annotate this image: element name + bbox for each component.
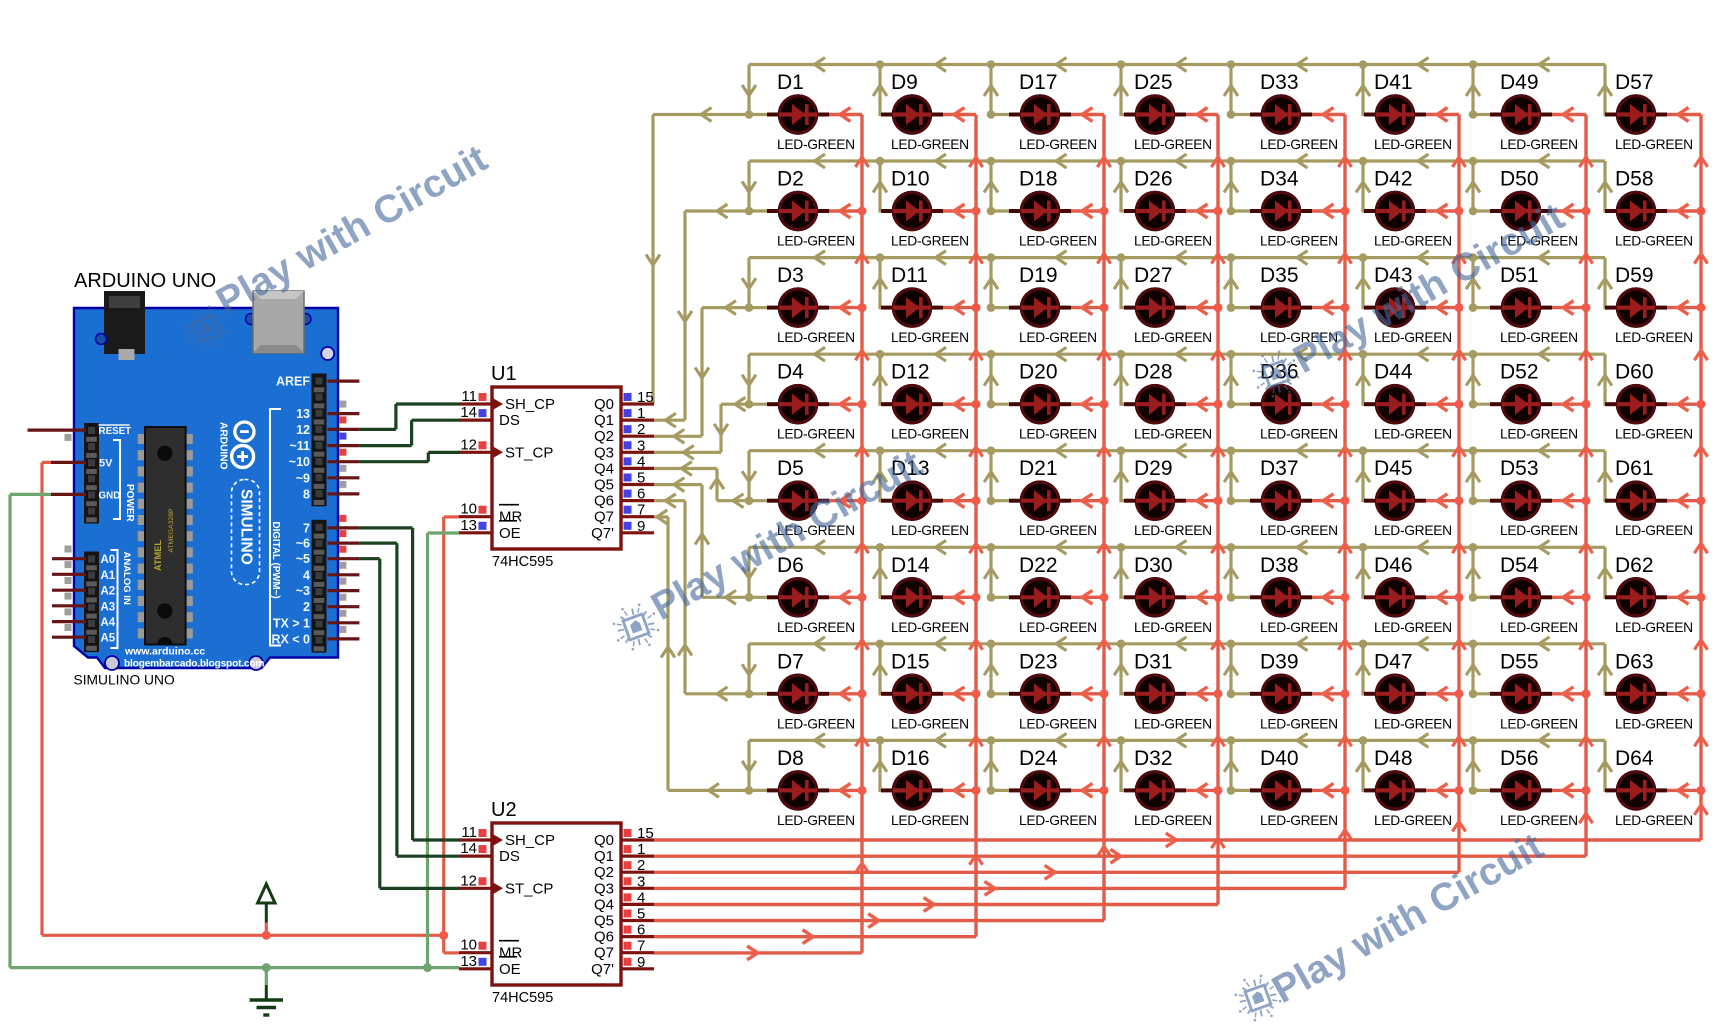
current arrows column 4 <box>924 108 1225 912</box>
svg-text:RX < 0: RX < 0 <box>271 632 310 646</box>
svg-text:LED-GREEN: LED-GREEN <box>1615 137 1693 152</box>
svg-text:Q5: Q5 <box>594 913 614 930</box>
svg-text:LED-GREEN: LED-GREEN <box>891 137 969 152</box>
svg-text:D41: D41 <box>1374 71 1413 94</box>
LED D4 <box>767 384 829 425</box>
svg-text:4: 4 <box>303 568 310 582</box>
svg-text:LED-GREEN: LED-GREEN <box>1374 716 1452 731</box>
LED D22 <box>1009 577 1071 618</box>
svg-text:U2: U2 <box>491 799 517 821</box>
svg-text:10: 10 <box>460 937 477 954</box>
svg-text:Q2: Q2 <box>594 864 614 881</box>
svg-text:13: 13 <box>296 407 310 421</box>
Arduino left pin stubs and labels <box>28 425 132 645</box>
svg-text:SIMULINO UNO: SIMULINO UNO <box>74 673 175 688</box>
LED D5 <box>767 480 829 521</box>
svg-text:11: 11 <box>461 388 477 405</box>
svg-text:LED-GREEN: LED-GREEN <box>1374 234 1452 249</box>
LED D14 <box>881 577 943 618</box>
watermark <box>177 137 495 358</box>
LED D43 <box>1364 287 1426 328</box>
wire: row 3 net (U1 Q2 to LED row, khaki) <box>654 258 1606 437</box>
svg-text:Q1: Q1 <box>594 848 614 865</box>
junction dots column 8 <box>1697 207 1706 795</box>
svg-text:D22: D22 <box>1019 554 1058 577</box>
LED D17 <box>1009 94 1071 135</box>
svg-text:www.arduino.cc: www.arduino.cc <box>124 646 205 658</box>
svg-text:D50: D50 <box>1500 168 1539 191</box>
LED D34 <box>1250 191 1312 232</box>
svg-text:7: 7 <box>637 502 645 519</box>
U1 pin numbers and state squares <box>460 388 653 535</box>
svg-text:5V: 5V <box>99 458 113 470</box>
LED D57 <box>1605 94 1667 135</box>
svg-text:4: 4 <box>637 453 645 470</box>
svg-text:14: 14 <box>460 404 477 421</box>
svg-text:LED-GREEN: LED-GREEN <box>1019 813 1097 828</box>
wire: column 5 net (U2 Q3 to LED column, red) <box>654 115 1345 889</box>
LED D47 <box>1364 674 1426 715</box>
svg-text:D35: D35 <box>1260 264 1299 287</box>
wire: Arduino D10 to U1 ST_CP (dark green) <box>359 452 459 461</box>
LED D51 <box>1490 287 1552 328</box>
svg-text:LED-GREEN: LED-GREEN <box>891 234 969 249</box>
header: digital 8-13/AREF pins <box>312 374 327 507</box>
svg-text:D54: D54 <box>1500 554 1539 577</box>
svg-text:D34: D34 <box>1260 168 1299 191</box>
svg-text:D40: D40 <box>1260 747 1299 770</box>
svg-text:15: 15 <box>637 825 654 842</box>
svg-text:Q3: Q3 <box>594 880 614 897</box>
LED D27 <box>1124 287 1186 328</box>
svg-text:LED-GREEN: LED-GREEN <box>1500 137 1578 152</box>
junction dots row 4 <box>745 350 1478 409</box>
svg-text:LED-GREEN: LED-GREEN <box>1019 234 1097 249</box>
svg-text:D56: D56 <box>1500 747 1539 770</box>
svg-text:D18: D18 <box>1019 168 1058 191</box>
header: digital 0-7 pins <box>312 520 327 653</box>
U1 pin name labels <box>499 396 614 542</box>
LED D63 <box>1605 674 1667 715</box>
svg-text:LED-GREEN: LED-GREEN <box>1019 330 1097 345</box>
svg-text:D30: D30 <box>1134 554 1173 577</box>
svg-text:D8: D8 <box>777 747 804 770</box>
LED D36 <box>1250 384 1312 425</box>
svg-text:D24: D24 <box>1019 747 1058 770</box>
LED D21 <box>1009 480 1071 521</box>
LED D40 <box>1250 770 1312 811</box>
LED D25 <box>1124 94 1186 135</box>
junction dots row 1 <box>745 60 1478 119</box>
svg-text:D2: D2 <box>777 168 804 191</box>
svg-text:D20: D20 <box>1019 361 1058 384</box>
wire: row 2 net (U1 Q1 to LED row, khaki) <box>654 161 1606 420</box>
junction dots column 3 <box>1100 207 1109 795</box>
svg-text:D53: D53 <box>1500 457 1539 480</box>
LED D39 <box>1250 674 1312 715</box>
svg-text:D60: D60 <box>1615 361 1654 384</box>
svg-text:D5: D5 <box>777 457 804 480</box>
wire: row 7 net (U1 Q6 to LED row, khaki) <box>654 501 1606 694</box>
svg-text:D23: D23 <box>1019 650 1058 673</box>
LED D58 <box>1605 191 1667 232</box>
LED D48 <box>1364 770 1426 811</box>
current arrows row 8 <box>657 510 1612 797</box>
svg-text:D42: D42 <box>1374 168 1413 191</box>
svg-text:~6: ~6 <box>296 537 310 551</box>
svg-text:D15: D15 <box>891 650 930 673</box>
svg-text:LED-GREEN: LED-GREEN <box>1134 330 1212 345</box>
svg-text:LED-GREEN: LED-GREEN <box>891 620 969 635</box>
current arrows column 2 <box>803 108 983 944</box>
svg-text:LED-GREEN: LED-GREEN <box>1615 620 1693 635</box>
LED D32 <box>1124 770 1186 811</box>
junction dots column 2 <box>972 207 981 795</box>
svg-text:AREF: AREF <box>276 375 310 389</box>
svg-text:LED-GREEN: LED-GREEN <box>777 330 855 345</box>
svg-text:D27: D27 <box>1134 264 1173 287</box>
wire: column 8 net (U2 Q0 to LED column, red) <box>654 115 1701 841</box>
watermark <box>1229 825 1551 1024</box>
svg-text:LED-GREEN: LED-GREEN <box>1500 716 1578 731</box>
svg-text:A2: A2 <box>101 586 116 598</box>
svg-text:LED-GREEN: LED-GREEN <box>1260 716 1338 731</box>
svg-text:D47: D47 <box>1374 650 1413 673</box>
svg-text:D46: D46 <box>1374 554 1413 577</box>
svg-text:LED-GREEN: LED-GREEN <box>1019 137 1097 152</box>
svg-text:D31: D31 <box>1134 650 1173 673</box>
svg-text:LED-GREEN: LED-GREEN <box>1500 813 1578 828</box>
current arrows row 5 <box>681 444 1612 508</box>
svg-text:D49: D49 <box>1500 71 1539 94</box>
svg-text:LED-GREEN: LED-GREEN <box>1374 137 1452 152</box>
current arrows row 1 <box>646 58 1612 265</box>
svg-text:D45: D45 <box>1374 457 1413 480</box>
svg-text:MR: MR <box>499 509 522 526</box>
svg-text:LED-GREEN: LED-GREEN <box>1500 620 1578 635</box>
U1 right pin stubs (Q0..Q7') <box>621 404 654 533</box>
svg-text:Q0: Q0 <box>594 832 614 849</box>
LED D12 <box>881 384 943 425</box>
svg-text:ATMEGA328P: ATMEGA328P <box>168 508 175 553</box>
svg-text:D55: D55 <box>1500 650 1539 673</box>
current arrows column 3 <box>868 108 1110 928</box>
svg-text:8: 8 <box>303 487 310 501</box>
svg-text:LED-GREEN: LED-GREEN <box>1374 620 1452 635</box>
svg-text:D3: D3 <box>777 264 804 287</box>
svg-text:LED-GREEN: LED-GREEN <box>1615 813 1693 828</box>
svg-text:13: 13 <box>460 517 477 534</box>
LED D33 <box>1250 94 1312 135</box>
svg-text:7: 7 <box>303 521 310 535</box>
svg-text:D26: D26 <box>1134 168 1173 191</box>
svg-text:3: 3 <box>637 873 645 890</box>
wire: column 4 net (U2 Q4 to LED column, red) <box>654 115 1218 905</box>
svg-text:LED-GREEN: LED-GREEN <box>777 234 855 249</box>
LED D49 <box>1490 94 1552 135</box>
wire: row 6 net (U1 Q5 to LED row, khaki) <box>654 485 1606 598</box>
svg-text:SH_CP: SH_CP <box>505 396 555 413</box>
svg-text:LED-GREEN: LED-GREEN <box>1134 716 1212 731</box>
svg-text:LED-GREEN: LED-GREEN <box>1615 234 1693 249</box>
LED D54 <box>1490 577 1552 618</box>
svg-text:Q7': Q7' <box>591 961 614 978</box>
LED D61 <box>1605 480 1667 521</box>
junction dots column 6 <box>1455 207 1464 795</box>
header: ANALOG pins <box>84 552 99 653</box>
svg-text:D63: D63 <box>1615 650 1654 673</box>
svg-text:Q5: Q5 <box>594 477 614 494</box>
svg-text:LED-GREEN: LED-GREEN <box>1134 234 1212 249</box>
svg-text:LED-GREEN: LED-GREEN <box>1615 330 1693 345</box>
svg-text:D17: D17 <box>1019 71 1058 94</box>
svg-text:14: 14 <box>460 840 477 857</box>
junction dots row 8 <box>745 736 1478 795</box>
IC U2 74HC595 body <box>492 823 621 985</box>
ground symbol <box>250 985 283 1015</box>
wire: Arduino D11 to U1 DS (dark green) <box>359 420 459 445</box>
wire: 5V power rail (red) <box>42 462 460 953</box>
wire: row 1 net (U1 Q0 to LED row, khaki) <box>653 65 1606 405</box>
junction dots column 7 <box>1582 207 1591 795</box>
svg-text:D29: D29 <box>1134 457 1173 480</box>
LED D3 <box>767 287 829 328</box>
LED D11 <box>881 287 943 328</box>
svg-text:LED-GREEN: LED-GREEN <box>777 427 855 442</box>
junction dots column 4 <box>1214 207 1223 795</box>
LED D45 <box>1364 480 1426 521</box>
svg-text:~5: ~5 <box>296 552 310 566</box>
current arrows column 6 <box>1045 108 1466 880</box>
svg-text:LED-GREEN: LED-GREEN <box>777 137 855 152</box>
svg-text:LED-GREEN: LED-GREEN <box>777 716 855 731</box>
current arrows row 3 <box>674 251 1612 444</box>
svg-text:15: 15 <box>637 389 654 406</box>
current arrows row 4 <box>683 347 1612 459</box>
svg-text:A1: A1 <box>101 570 116 582</box>
svg-text:7: 7 <box>637 938 645 955</box>
svg-text:2: 2 <box>303 600 310 614</box>
svg-text:6: 6 <box>637 486 645 503</box>
wire: Arduino D6 to U2 DS (dark green) <box>359 543 459 856</box>
wire: Arduino D7 to U2 SH_CP (dark green) <box>359 528 459 840</box>
LED D62 <box>1605 577 1667 618</box>
wire: row 4 net (U1 Q3 to LED row, khaki) <box>654 354 1606 452</box>
ATMEGA328P chip <box>138 427 193 645</box>
svg-text:3: 3 <box>637 437 645 454</box>
svg-text:LED-GREEN: LED-GREEN <box>1260 620 1338 635</box>
wire: column 6 net (U2 Q2 to LED column, red) <box>654 115 1459 873</box>
svg-text:D4: D4 <box>777 361 804 384</box>
current arrows row 6 <box>674 478 1612 605</box>
current arrows row 2 <box>665 154 1612 427</box>
svg-text:LED-GREEN: LED-GREEN <box>891 813 969 828</box>
LED D46 <box>1364 577 1426 618</box>
svg-text:D9: D9 <box>891 71 918 94</box>
svg-text:LED-GREEN: LED-GREEN <box>777 620 855 635</box>
svg-text:LED-GREEN: LED-GREEN <box>1260 137 1338 152</box>
svg-text:5: 5 <box>637 470 645 487</box>
svg-text:Q3: Q3 <box>594 444 614 461</box>
junction dots row 6 <box>745 543 1478 602</box>
svg-text:GND: GND <box>99 491 121 502</box>
svg-text:OE: OE <box>499 525 521 542</box>
LED D50 <box>1490 191 1552 232</box>
svg-text:D12: D12 <box>891 361 930 384</box>
junction dots row 5 <box>745 446 1478 505</box>
junction: gnd net dots <box>262 963 271 972</box>
svg-text:LED-GREEN: LED-GREEN <box>1500 427 1578 442</box>
LED D55 <box>1490 674 1552 715</box>
U2 pin numbers and state squares <box>460 824 653 971</box>
svg-text:POWER: POWER <box>124 484 135 523</box>
svg-text:LED-GREEN: LED-GREEN <box>1374 813 1452 828</box>
svg-text:~3: ~3 <box>296 584 310 598</box>
svg-text:ANALOG IN: ANALOG IN <box>121 552 132 605</box>
LED D2 <box>767 191 829 232</box>
svg-text:LED-GREEN: LED-GREEN <box>1019 427 1097 442</box>
svg-text:A0: A0 <box>101 554 116 566</box>
svg-text:6: 6 <box>637 922 645 939</box>
svg-text:2: 2 <box>637 421 645 438</box>
svg-text:TX > 1: TX > 1 <box>273 616 310 630</box>
svg-text:5: 5 <box>637 906 645 923</box>
svg-text:11: 11 <box>461 824 477 841</box>
LED D59 <box>1605 287 1667 328</box>
LED D7 <box>767 674 829 715</box>
svg-text:D61: D61 <box>1615 457 1654 480</box>
svg-text:13: 13 <box>460 953 477 970</box>
svg-text:D37: D37 <box>1260 457 1299 480</box>
svg-text:D52: D52 <box>1500 361 1539 384</box>
wire: column 3 net (U2 Q5 to LED column, red) <box>654 115 1104 921</box>
svg-text:~11: ~11 <box>289 439 310 453</box>
svg-text:LED-GREEN: LED-GREEN <box>891 427 969 442</box>
svg-text:Q7': Q7' <box>591 525 614 542</box>
LED D42 <box>1364 191 1426 232</box>
U1 left pin stubs (SH_CP, DS, ST_CP, MR, OE) <box>459 404 492 533</box>
svg-text:LED-GREEN: LED-GREEN <box>1615 716 1693 731</box>
LED D28 <box>1124 384 1186 425</box>
svg-text:D1: D1 <box>777 71 804 94</box>
svg-text:D28: D28 <box>1134 361 1173 384</box>
svg-text:~9: ~9 <box>296 471 310 485</box>
svg-text:Q6: Q6 <box>594 493 614 510</box>
LED D31 <box>1124 674 1186 715</box>
header: POWER pins <box>84 423 99 524</box>
svg-text:D48: D48 <box>1374 747 1413 770</box>
svg-text:LED-GREEN: LED-GREEN <box>1260 234 1338 249</box>
svg-text:9: 9 <box>637 518 645 535</box>
svg-text:12: 12 <box>296 423 310 437</box>
LED D37 <box>1250 480 1312 521</box>
svg-text:D7: D7 <box>777 650 804 673</box>
svg-text:D33: D33 <box>1260 71 1299 94</box>
wire: column 1 net (U2 Q7 to LED column, red) <box>654 115 862 953</box>
current arrows column 1 <box>747 108 869 960</box>
svg-text:LED-GREEN: LED-GREEN <box>1260 523 1338 538</box>
svg-text:A3: A3 <box>101 601 116 613</box>
LED D52 <box>1490 384 1552 425</box>
LED D19 <box>1009 287 1071 328</box>
U2 pin name labels <box>499 832 614 978</box>
LED D30 <box>1124 577 1186 618</box>
svg-text:MR: MR <box>499 945 522 962</box>
svg-text:LED-GREEN: LED-GREEN <box>1134 813 1212 828</box>
svg-text:DS: DS <box>499 848 520 865</box>
svg-text:D44: D44 <box>1374 361 1413 384</box>
LED D41 <box>1364 94 1426 135</box>
svg-text:D39: D39 <box>1260 650 1299 673</box>
LED D23 <box>1009 674 1071 715</box>
svg-text:LED-GREEN: LED-GREEN <box>1134 523 1212 538</box>
LED D10 <box>881 191 943 232</box>
svg-text:LED-GREEN: LED-GREEN <box>1019 716 1097 731</box>
LED D18 <box>1009 191 1071 232</box>
LED D6 <box>767 577 829 618</box>
svg-text:D11: D11 <box>891 264 928 287</box>
current arrows column 8 <box>1166 108 1708 847</box>
U2 left pin stubs (SH_CP, DS, ST_CP, MR, OE) <box>459 840 492 969</box>
current arrows column 5 <box>985 108 1352 896</box>
svg-text:2: 2 <box>637 857 645 874</box>
svg-text:LED-GREEN: LED-GREEN <box>1500 523 1578 538</box>
junction dots row 3 <box>745 253 1478 312</box>
LED D8 <box>767 770 829 811</box>
wire: row 5 net (U1 Q4 to LED row, khaki) <box>654 451 1606 501</box>
current arrows column 7 <box>1110 108 1592 864</box>
LED D26 <box>1124 191 1186 232</box>
svg-text:~10: ~10 <box>289 455 310 469</box>
svg-text:LED-GREEN: LED-GREEN <box>1260 427 1338 442</box>
svg-text:D58: D58 <box>1615 168 1654 191</box>
LED D56 <box>1490 770 1552 811</box>
svg-text:D64: D64 <box>1615 747 1654 770</box>
svg-text:ST_CP: ST_CP <box>505 444 553 461</box>
svg-text:LED-GREEN: LED-GREEN <box>1019 523 1097 538</box>
svg-text:10: 10 <box>460 501 477 518</box>
svg-text:D25: D25 <box>1134 71 1173 94</box>
svg-text:LED-GREEN: LED-GREEN <box>777 813 855 828</box>
svg-text:SH_CP: SH_CP <box>505 832 555 849</box>
LED D1 <box>767 94 829 135</box>
wire: row 8 net (U1 Q7 to LED row, khaki) <box>654 517 1606 791</box>
svg-text:D57: D57 <box>1615 71 1654 94</box>
LED D9 <box>881 94 943 135</box>
svg-text:blogembarcado.blogspot.com: blogembarcado.blogspot.com <box>124 659 264 670</box>
svg-text:74HC595: 74HC595 <box>492 554 553 570</box>
svg-text:SIMULINO: SIMULINO <box>237 489 254 565</box>
wire: Arduino D5 to U2 ST_CP (dark green) <box>359 559 459 889</box>
LED D15 <box>881 674 943 715</box>
svg-text:LED-GREEN: LED-GREEN <box>1500 330 1578 345</box>
svg-text:LED-GREEN: LED-GREEN <box>891 330 969 345</box>
LED D35 <box>1250 287 1312 328</box>
Arduino UNO board <box>74 291 338 670</box>
svg-text:D10: D10 <box>891 168 930 191</box>
svg-text:12: 12 <box>460 436 477 453</box>
svg-text:9: 9 <box>637 954 645 971</box>
svg-text:A5: A5 <box>101 633 116 645</box>
LED D29 <box>1124 480 1186 521</box>
svg-text:Q4: Q4 <box>594 896 614 913</box>
svg-text:D32: D32 <box>1134 747 1173 770</box>
svg-text:LED-GREEN: LED-GREEN <box>1019 620 1097 635</box>
svg-text:DIGITAL (PWM~): DIGITAL (PWM~) <box>270 522 281 599</box>
junction dots column 5 <box>1341 207 1350 795</box>
svg-text:4: 4 <box>637 889 645 906</box>
svg-text:LED-GREEN: LED-GREEN <box>1615 523 1693 538</box>
